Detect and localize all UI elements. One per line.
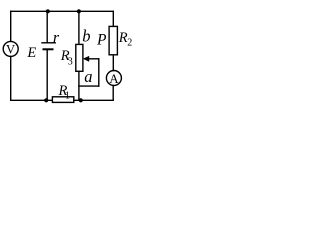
svg-text:R: R bbox=[118, 30, 128, 46]
wire left vertical lower (voltmeter to bottom corner) bbox=[10, 56, 12, 100]
resistor R1 box bbox=[52, 97, 73, 103]
svg-text:A: A bbox=[109, 71, 119, 86]
ammeter A1 circle bbox=[106, 71, 121, 86]
battery E long plate bbox=[42, 42, 55, 44]
wire bottom horizontal left (corner to R1) bbox=[11, 99, 53, 101]
wire battery branch bottom (battery down to bottom wire) bbox=[46, 49, 48, 100]
junction dot top R3 node bbox=[77, 9, 81, 13]
svg-text:E: E bbox=[26, 45, 36, 61]
svg-text:b: b bbox=[82, 27, 90, 46]
wire ammeter top to R2 bottom bbox=[112, 55, 114, 71]
wire top horizontal bbox=[11, 10, 114, 12]
svg-text:2: 2 bbox=[127, 38, 132, 49]
battery E short plate bbox=[44, 48, 53, 50]
svg-text:P: P bbox=[96, 32, 107, 49]
wire slider return to R3 bottom stem bbox=[79, 85, 99, 87]
svg-text:1: 1 bbox=[65, 90, 70, 101]
svg-text:3: 3 bbox=[68, 57, 73, 68]
svg-text:V: V bbox=[6, 42, 15, 56]
R3 slider arrowhead bbox=[83, 56, 89, 62]
wire R3 slider horizontal shaft bbox=[88, 58, 99, 60]
svg-text:a: a bbox=[84, 67, 92, 86]
wire slider vertical segment bbox=[98, 59, 100, 86]
wire R2 top to top wire corner bbox=[112, 11, 114, 26]
wire right riser (bottom corner up to ammeter) bbox=[112, 86, 114, 101]
voltmeter V1 circle bbox=[3, 41, 18, 56]
wire left vertical upper (top corner to voltmeter) bbox=[10, 11, 12, 41]
potentiometer R3 box bbox=[76, 44, 83, 71]
junction dot top battery node bbox=[46, 9, 50, 13]
junction dot bottom R3 node bbox=[79, 98, 83, 102]
resistor R2 box bbox=[109, 26, 117, 54]
svg-text:r: r bbox=[53, 30, 60, 47]
wire battery branch top (top wire down to battery) bbox=[46, 11, 48, 42]
wire R3 branch top (top wire dot down to R3 box) bbox=[78, 11, 80, 44]
junction dot bottom battery node bbox=[44, 98, 48, 102]
wire bottom horizontal right (R1 to bottom-right corner) bbox=[74, 99, 113, 101]
wire R3 branch bottom (box to bottom wire dot) bbox=[78, 71, 80, 100]
